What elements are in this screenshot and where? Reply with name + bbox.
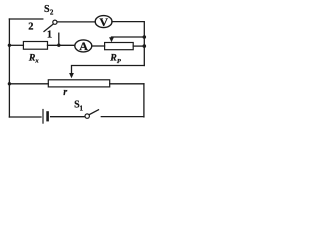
voltmeter V1 body xyxy=(95,16,112,28)
svg-text:A: A xyxy=(79,39,88,53)
switch S2 blade xyxy=(44,24,54,32)
ammeter A1 body xyxy=(75,40,92,52)
wire: voltmeter to right vertical, down to Rp node xyxy=(112,22,144,66)
wire: top branch to switch S2 throw 2 xyxy=(9,18,42,20)
wire: Rx to ammeter xyxy=(48,44,75,46)
wire: right border lower xyxy=(143,84,145,117)
wire: left border to rheostat r xyxy=(9,83,48,85)
switch S2 pivot xyxy=(53,20,57,24)
svg-text:2: 2 xyxy=(28,22,33,33)
rheostat r slider arrow xyxy=(69,73,74,78)
switch S1 pivot xyxy=(85,114,89,118)
svg-text:2: 2 xyxy=(50,9,54,17)
wire: switch S1 to right border xyxy=(101,116,144,118)
junction: Rp terminal / right vertical xyxy=(143,44,147,48)
wire: battery to switch S1 xyxy=(51,116,85,118)
switch S1 blade xyxy=(89,110,98,115)
wire: Rp right terminal to right vertical xyxy=(133,45,144,47)
wire: rheostat r to right border xyxy=(110,83,144,85)
rheostat Rp slider arrow xyxy=(109,37,114,42)
svg-text:1: 1 xyxy=(47,30,52,41)
svg-text:V: V xyxy=(99,15,108,29)
junction: left border / r row xyxy=(8,82,11,85)
wire: Rp slider to right vertical xyxy=(112,36,145,38)
junction: Rp slider / right vertical xyxy=(143,35,147,39)
junction: left border / Rx row xyxy=(8,44,11,47)
battery BT1 positive plate xyxy=(42,110,44,124)
svg-text:x: x xyxy=(34,57,39,64)
resistor Rx body xyxy=(23,42,47,50)
rheostat r body xyxy=(48,80,109,87)
svg-text:r: r xyxy=(63,87,67,98)
battery BT1 negative plate xyxy=(46,113,49,121)
wire: switch S2 throw 1 drop xyxy=(58,33,60,45)
junction: throw-1 / ammeter row xyxy=(57,44,60,47)
wire: left border xyxy=(8,19,10,117)
rheostat Rp body xyxy=(105,43,134,50)
wire: left border to Rx xyxy=(9,44,23,46)
wire: ammeter to Rp xyxy=(92,45,105,47)
svg-text:1: 1 xyxy=(80,105,84,113)
wire: right vertical down to rheostat r slider xyxy=(72,66,145,74)
wire: S2 pivot to voltmeter xyxy=(57,21,95,23)
wire: bottom left to battery xyxy=(9,116,41,118)
